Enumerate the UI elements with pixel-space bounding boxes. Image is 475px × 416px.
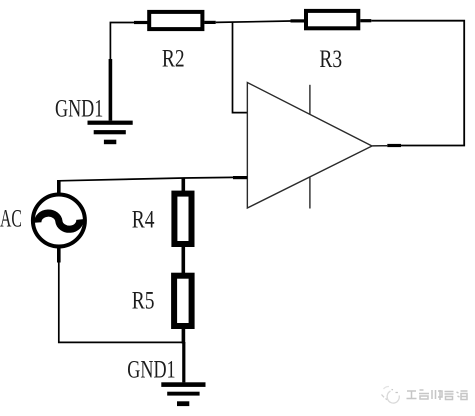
op-amp U1 triangle (247, 83, 372, 209)
label R3 (319, 45, 342, 73)
label GND1 (top-left) (55, 95, 103, 122)
svg-text:GND1: GND1 (55, 95, 103, 122)
resistor R3 body (306, 11, 358, 28)
watermark text (stylized CJK strokes) (407, 390, 468, 400)
AC source V1 bottom pin (57, 247, 61, 263)
resistor R3 pin right (360, 19, 371, 22)
resistor R5 pin bottom (182, 328, 186, 344)
svg-text:AC: AC (0, 204, 22, 233)
ground GND1 (bottom) pin (182, 342, 185, 382)
resistor R5 body (174, 276, 192, 326)
op-amp U1 non-inverting input pin stub (233, 176, 247, 179)
AC source V1 sine symbol (38, 213, 80, 229)
label R4 (132, 205, 155, 233)
resistor R4 body (174, 194, 191, 244)
wire top-left corner: from GND1 up and right to R2 (110, 23, 135, 62)
ground GND1 (bottom) bars (161, 382, 205, 406)
svg-text:R3: R3 (319, 45, 342, 73)
svg-text:GND1: GND1 (127, 356, 175, 383)
resistor R2 pin left (134, 21, 148, 24)
label R5 (132, 286, 155, 314)
wire feedback loop: R3 right, down right edge, to op-amp output (371, 21, 464, 146)
resistor R2 pin right (204, 21, 215, 24)
wire non-inverting input: AC top to op-amp (59, 177, 233, 180)
svg-text:R4: R4 (132, 205, 155, 233)
wire inverting input (node from top wire down to op-amp) (233, 22, 248, 112)
wire AC bottom to ground node (59, 263, 184, 343)
op-amp U1 power pin (bottom) (309, 178, 311, 209)
svg-text:R5: R5 (132, 286, 155, 314)
op-amp U1 output pin (372, 144, 401, 148)
wire R4 to R5 (182, 246, 186, 274)
AC source V1 circle (33, 195, 85, 247)
watermark logo icon (382, 386, 400, 403)
ground GND1 (top-left) bars (88, 121, 133, 145)
svg-text:R2: R2 (162, 44, 185, 72)
label R2 (162, 44, 185, 72)
AC source V1 top pin (57, 180, 61, 195)
label AC (0, 204, 22, 233)
resistor R4 pin top (182, 178, 186, 192)
label GND1 (bottom) (127, 356, 175, 383)
wire R2 to R3 (216, 21, 291, 22)
resistor R2 body (149, 12, 202, 29)
op-amp U1 power pin (top) (309, 85, 311, 115)
ground GND1 (top-left) pin (109, 59, 113, 121)
resistor R3 pin left (291, 19, 306, 22)
